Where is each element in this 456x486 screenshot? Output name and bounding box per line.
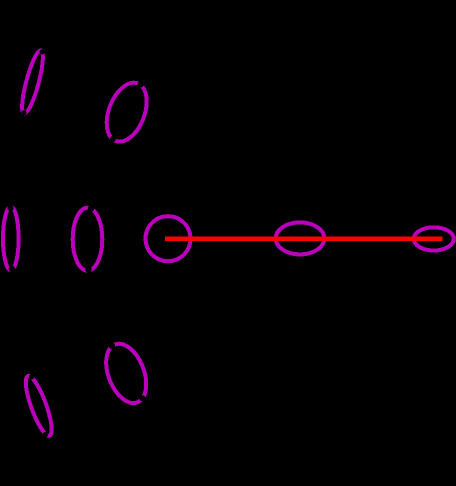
ellipse H (bottom-middle tilted) bbox=[98, 338, 153, 409]
circle E (origin of red ray) bbox=[146, 216, 191, 261]
ellipse G (right end of red ray) bbox=[414, 227, 454, 250]
ellipse D (middle) bbox=[73, 205, 103, 272]
ellipse I (bottom-left tilted) bbox=[21, 374, 57, 439]
ellipse A (top-left tilted) bbox=[18, 49, 47, 115]
ellipse B (top-middle tilted) bbox=[99, 77, 154, 147]
ellipse F (on red ray) bbox=[276, 222, 325, 254]
red ray line bbox=[165, 237, 443, 241]
ellipse C (middle-left, at image edge) bbox=[3, 205, 19, 272]
